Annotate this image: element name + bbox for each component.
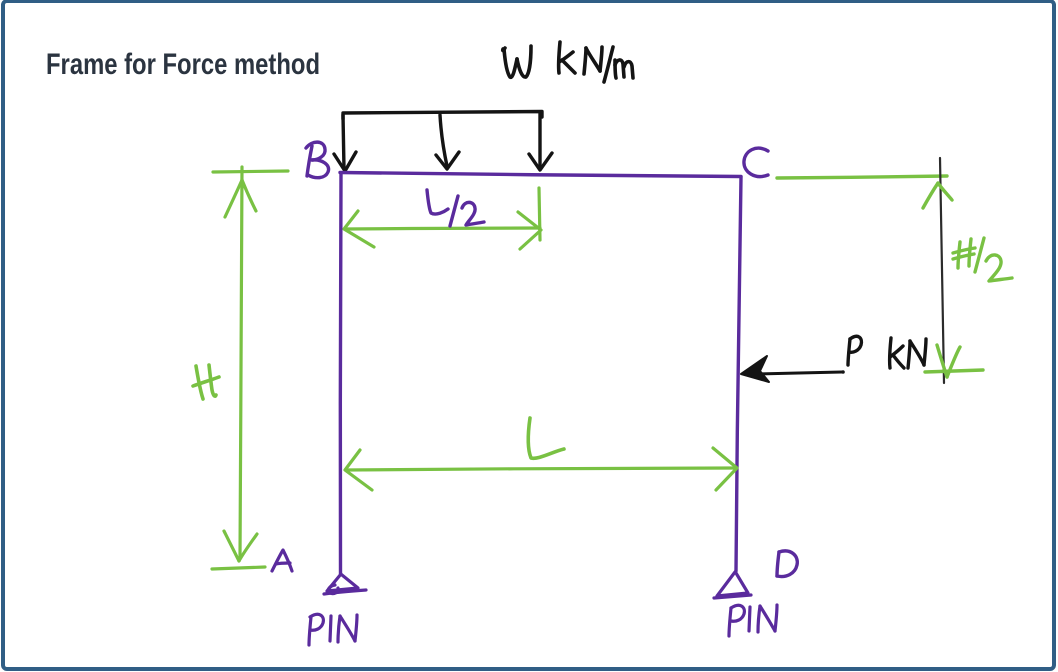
pin support A (324, 574, 366, 594)
label L/2 (427, 190, 484, 226)
label PIN at A (309, 614, 357, 645)
distributed load bar (343, 112, 542, 120)
member BC beam (340, 173, 741, 177)
load arrow 2 (436, 115, 459, 169)
dimension H/2 vertical line (940, 158, 944, 383)
node B label (306, 142, 329, 178)
label H/2 (953, 238, 1012, 281)
label H (193, 365, 219, 399)
member AB left column (339, 174, 343, 574)
node D label (777, 551, 797, 577)
member CD right column (736, 177, 741, 571)
pin support D (714, 572, 751, 598)
dimension H/2 arrows (923, 183, 983, 377)
node C label (744, 148, 768, 176)
load arrow 1 (334, 115, 356, 171)
dimension L/2 line (344, 188, 541, 249)
load label W kN/m (503, 42, 633, 82)
dimension H/2 extension line (777, 176, 947, 178)
label L (528, 418, 564, 458)
force P arrow (741, 356, 845, 382)
load arrow 3 (529, 112, 552, 170)
dimension L line (345, 448, 737, 490)
label PIN at D (729, 605, 777, 636)
svg-text:Frame for Force method: Frame for Force method (46, 48, 320, 81)
label P kN (848, 336, 926, 368)
node A label (272, 550, 292, 571)
dimension H line (212, 167, 288, 569)
